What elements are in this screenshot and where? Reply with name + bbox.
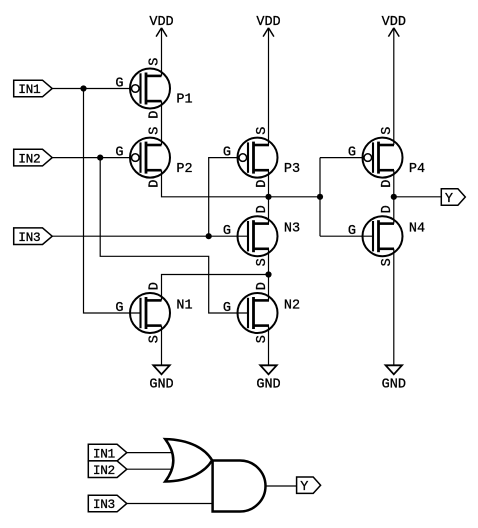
junction net n1 at P3/N3 drains: [265, 194, 271, 200]
svg-text:D: D: [255, 282, 270, 290]
svg-text:G: G: [223, 146, 231, 161]
svg-text:G: G: [348, 146, 356, 161]
svg-text:D: D: [380, 180, 395, 188]
svg-text:S: S: [255, 127, 270, 135]
input flag IN2: [88, 461, 127, 478]
svg-text:N2: N2: [284, 299, 300, 314]
wire bus to N4 gate: [320, 235, 373, 237]
junction N1/N2/N3 node: [265, 271, 271, 277]
output flag Y: [441, 189, 465, 207]
svg-text:N4: N4: [409, 222, 425, 237]
junction net n1 at gate bus: [317, 194, 323, 200]
wire IN3 to AND gate: [127, 503, 213, 505]
ground symbol GND (right): [382, 365, 406, 392]
transistor P2: [115, 127, 192, 188]
wire bus to P4 gate: [320, 157, 364, 159]
svg-text:VDD: VDD: [149, 15, 173, 30]
svg-text:IN3: IN3: [18, 230, 40, 245]
wire Y net to output flag: [394, 196, 442, 198]
svg-text:G: G: [115, 77, 123, 92]
svg-text:Y: Y: [300, 480, 308, 495]
svg-text:IN3: IN3: [93, 497, 115, 512]
wire N3 source to N2 drain: [268, 249, 270, 301]
svg-text:G: G: [348, 224, 356, 239]
ground symbol GND (left): [149, 365, 173, 392]
svg-text:G: G: [223, 301, 231, 316]
wire AND output to Y: [266, 485, 297, 487]
wire VDD to P1 source: [161, 28, 163, 76]
svg-text:G: G: [115, 301, 123, 316]
OR gate (IN1+IN2): [165, 439, 212, 481]
svg-text:S: S: [380, 258, 395, 266]
svg-text:GND: GND: [382, 377, 406, 392]
wire P2 drain to net n1: [162, 170, 321, 197]
wire IN2 to P2 gate: [52, 157, 131, 159]
wire IN2 to OR gate: [127, 468, 172, 470]
svg-text:S: S: [255, 335, 270, 343]
svg-text:D: D: [255, 180, 270, 188]
power symbol VDD (right): [382, 15, 406, 37]
junction Y node: [391, 194, 397, 200]
svg-text:S: S: [148, 58, 163, 66]
svg-text:P1: P1: [176, 93, 192, 108]
wire P4 drain to N4 drain: [393, 170, 395, 223]
AND gate: [213, 461, 266, 512]
svg-text:P4: P4: [409, 162, 425, 177]
junction IN1 node: [80, 85, 86, 91]
wire IN1 branch to N1 gate: [84, 89, 141, 314]
wire N2 source to GND: [268, 326, 270, 366]
junction IN2 node: [97, 155, 103, 161]
input flag IN1: [14, 80, 53, 97]
input flag IN3: [14, 228, 53, 245]
transistor P4: [348, 127, 425, 188]
wire VDD to P3 source: [268, 28, 270, 145]
svg-text:S: S: [255, 258, 270, 266]
svg-text:D: D: [380, 205, 395, 213]
transistor N2: [223, 282, 300, 343]
svg-text:IN1: IN1: [18, 82, 41, 97]
output flag Y: [297, 477, 321, 495]
wire IN2 branch to N2 gate: [100, 158, 248, 313]
svg-text:G: G: [115, 146, 123, 161]
svg-text:GND: GND: [256, 377, 280, 392]
wire N4 source to GND: [393, 249, 395, 365]
transistor N1: [115, 282, 192, 343]
wire IN1 to P1 gate: [52, 88, 131, 90]
transistor N4: [348, 205, 425, 266]
svg-text:D: D: [148, 111, 163, 119]
svg-text:S: S: [148, 335, 163, 343]
power symbol VDD (left): [149, 15, 173, 37]
svg-text:S: S: [148, 127, 163, 135]
wire IN3 to N3 gate: [52, 235, 248, 237]
svg-text:D: D: [148, 282, 163, 290]
svg-text:IN1: IN1: [93, 446, 116, 461]
svg-text:N1: N1: [176, 299, 192, 314]
transistor N3: [223, 205, 300, 266]
svg-text:VDD: VDD: [382, 15, 406, 30]
wire P1 drain to P2 source: [161, 101, 163, 145]
ground symbol GND (middle): [256, 365, 280, 392]
svg-text:Y: Y: [445, 192, 453, 207]
svg-text:P2: P2: [176, 162, 192, 177]
input flag IN3: [88, 495, 127, 512]
transistor P1: [115, 58, 192, 119]
junction IN3 node: [206, 233, 212, 239]
svg-text:D: D: [255, 205, 270, 213]
transistor P3: [223, 127, 300, 188]
wire P3 drain to N3 drain: [268, 170, 270, 223]
wire N1 source to GND: [161, 326, 163, 366]
wire IN3 branch to P3 gate: [209, 158, 239, 237]
wire IN1 to OR gate: [127, 452, 172, 454]
svg-text:P3: P3: [284, 162, 300, 177]
svg-text:IN2: IN2: [93, 463, 115, 478]
wire gate bus P4/N4: [319, 158, 321, 237]
svg-text:D: D: [148, 180, 163, 188]
svg-text:VDD: VDD: [256, 15, 280, 30]
svg-text:GND: GND: [149, 377, 173, 392]
svg-text:IN2: IN2: [18, 151, 40, 166]
wire VDD to P4 source: [393, 28, 395, 145]
svg-text:S: S: [380, 127, 395, 135]
input flag IN2: [14, 149, 53, 166]
power symbol VDD (middle): [256, 15, 280, 37]
svg-text:N3: N3: [284, 222, 300, 237]
svg-text:G: G: [223, 224, 231, 239]
wire N1 drain to node: [162, 275, 269, 301]
input flag IN1: [88, 444, 127, 461]
